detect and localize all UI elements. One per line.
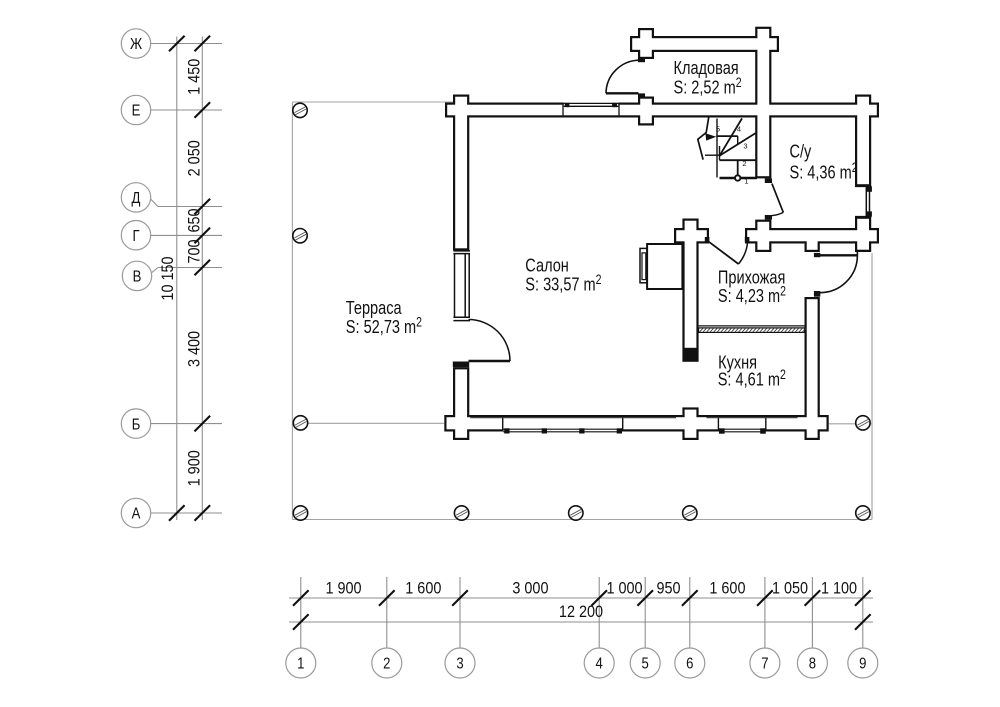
svg-text:Кладовая: Кладовая (674, 57, 739, 78)
svg-text:1 900: 1 900 (185, 450, 203, 486)
svg-text:S: 4,61 m2: S: 4,61 m2 (718, 367, 786, 390)
svg-text:7: 7 (761, 656, 768, 673)
svg-text:А: А (132, 506, 141, 523)
svg-text:Г: Г (132, 228, 139, 245)
svg-text:3 000: 3 000 (512, 579, 548, 597)
svg-text:1 450: 1 450 (185, 59, 203, 95)
svg-text:5: 5 (642, 656, 649, 673)
svg-text:3: 3 (456, 656, 463, 673)
svg-text:950: 950 (656, 579, 680, 597)
svg-text:1 600: 1 600 (405, 579, 441, 597)
svg-text:8: 8 (809, 656, 816, 673)
svg-text:Б: Б (132, 416, 141, 433)
svg-text:1: 1 (297, 656, 304, 673)
svg-text:1 600: 1 600 (709, 579, 745, 597)
svg-text:4: 4 (737, 125, 741, 134)
svg-text:S: 33,57 m2: S: 33,57 m2 (525, 272, 601, 295)
svg-text:4: 4 (596, 656, 603, 673)
svg-text:3 400: 3 400 (185, 331, 203, 367)
svg-text:Д: Д (132, 190, 141, 207)
svg-text:2 050: 2 050 (185, 140, 203, 176)
svg-text:С/у: С/у (790, 141, 812, 162)
svg-text:2: 2 (742, 159, 746, 168)
svg-text:S: 2,52 m2: S: 2,52 m2 (674, 75, 742, 98)
svg-text:В: В (133, 268, 142, 285)
svg-text:S: 52,73 m2: S: 52,73 m2 (346, 314, 422, 337)
svg-text:10 150: 10 150 (159, 256, 177, 300)
svg-text:9: 9 (859, 656, 866, 673)
svg-text:650: 650 (185, 208, 203, 232)
svg-text:5: 5 (716, 125, 720, 134)
svg-text:Ж: Ж (130, 36, 143, 53)
svg-text:1 100: 1 100 (821, 579, 857, 597)
svg-text:S: 4,36 m2: S: 4,36 m2 (790, 160, 858, 183)
svg-text:1 050: 1 050 (772, 579, 808, 597)
svg-text:S: 4,23 m2: S: 4,23 m2 (718, 283, 786, 306)
svg-text:1: 1 (744, 177, 748, 186)
svg-text:Е: Е (132, 103, 141, 120)
svg-text:1 000: 1 000 (606, 579, 642, 597)
svg-text:700: 700 (185, 239, 203, 263)
svg-text:12 200: 12 200 (559, 603, 603, 621)
svg-text:3: 3 (743, 142, 747, 151)
svg-text:2: 2 (383, 656, 390, 673)
svg-text:1 900: 1 900 (325, 579, 361, 597)
svg-text:6: 6 (686, 656, 693, 673)
